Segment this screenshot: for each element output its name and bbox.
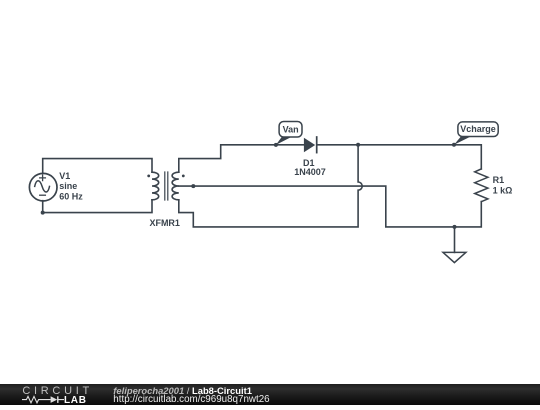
resistor R1 [475, 169, 488, 202]
wire secondary top to diode and to resistor corner [179, 145, 482, 172]
footer bar [0, 384, 540, 405]
CircuitLab logo [0, 384, 100, 405]
junction dot at V1 bottom [41, 211, 45, 215]
net flag Vcharge [452, 122, 498, 147]
label R1 value [493, 175, 513, 195]
transformer XFMR1 secondary phase dot [182, 175, 185, 178]
wire bottom rail V1 to primary [43, 200, 152, 213]
svg-text:1 kΩ: 1 kΩ [493, 186, 513, 196]
transformer XFMR1 primary phase dot [147, 175, 150, 178]
svg-text:1N4007: 1N4007 [294, 167, 326, 177]
svg-text:60 Hz: 60 Hz [59, 191, 83, 201]
svg-text:R1: R1 [493, 175, 505, 185]
ground [443, 227, 466, 263]
wire top rail V1 to primary [43, 159, 152, 174]
junction dot at diode cathode node [356, 143, 360, 147]
diode D1 [304, 137, 317, 153]
label D1 value [294, 158, 326, 177]
svg-text:Vcharge: Vcharge [460, 124, 496, 134]
wire cathode node down with hop to bottom and back to secondary bottom [179, 145, 362, 227]
wire center tap run [179, 186, 482, 227]
label V1 value [59, 171, 83, 202]
transformer XFMR1 primary winding [152, 172, 159, 200]
svg-text:XFMR1: XFMR1 [149, 218, 180, 228]
voltage source V1 [29, 173, 57, 201]
net flag Van [274, 122, 302, 147]
svg-text:sine: sine [59, 181, 77, 191]
transformer XFMR1 secondary winding [172, 172, 179, 200]
junction dot on center tap [191, 184, 195, 188]
junction dot at ground node [453, 225, 457, 229]
svg-text:V1: V1 [59, 171, 70, 181]
label XFMR1 [149, 218, 180, 228]
transformer XFMR1 core [165, 172, 168, 200]
svg-text:Van: Van [283, 124, 299, 134]
